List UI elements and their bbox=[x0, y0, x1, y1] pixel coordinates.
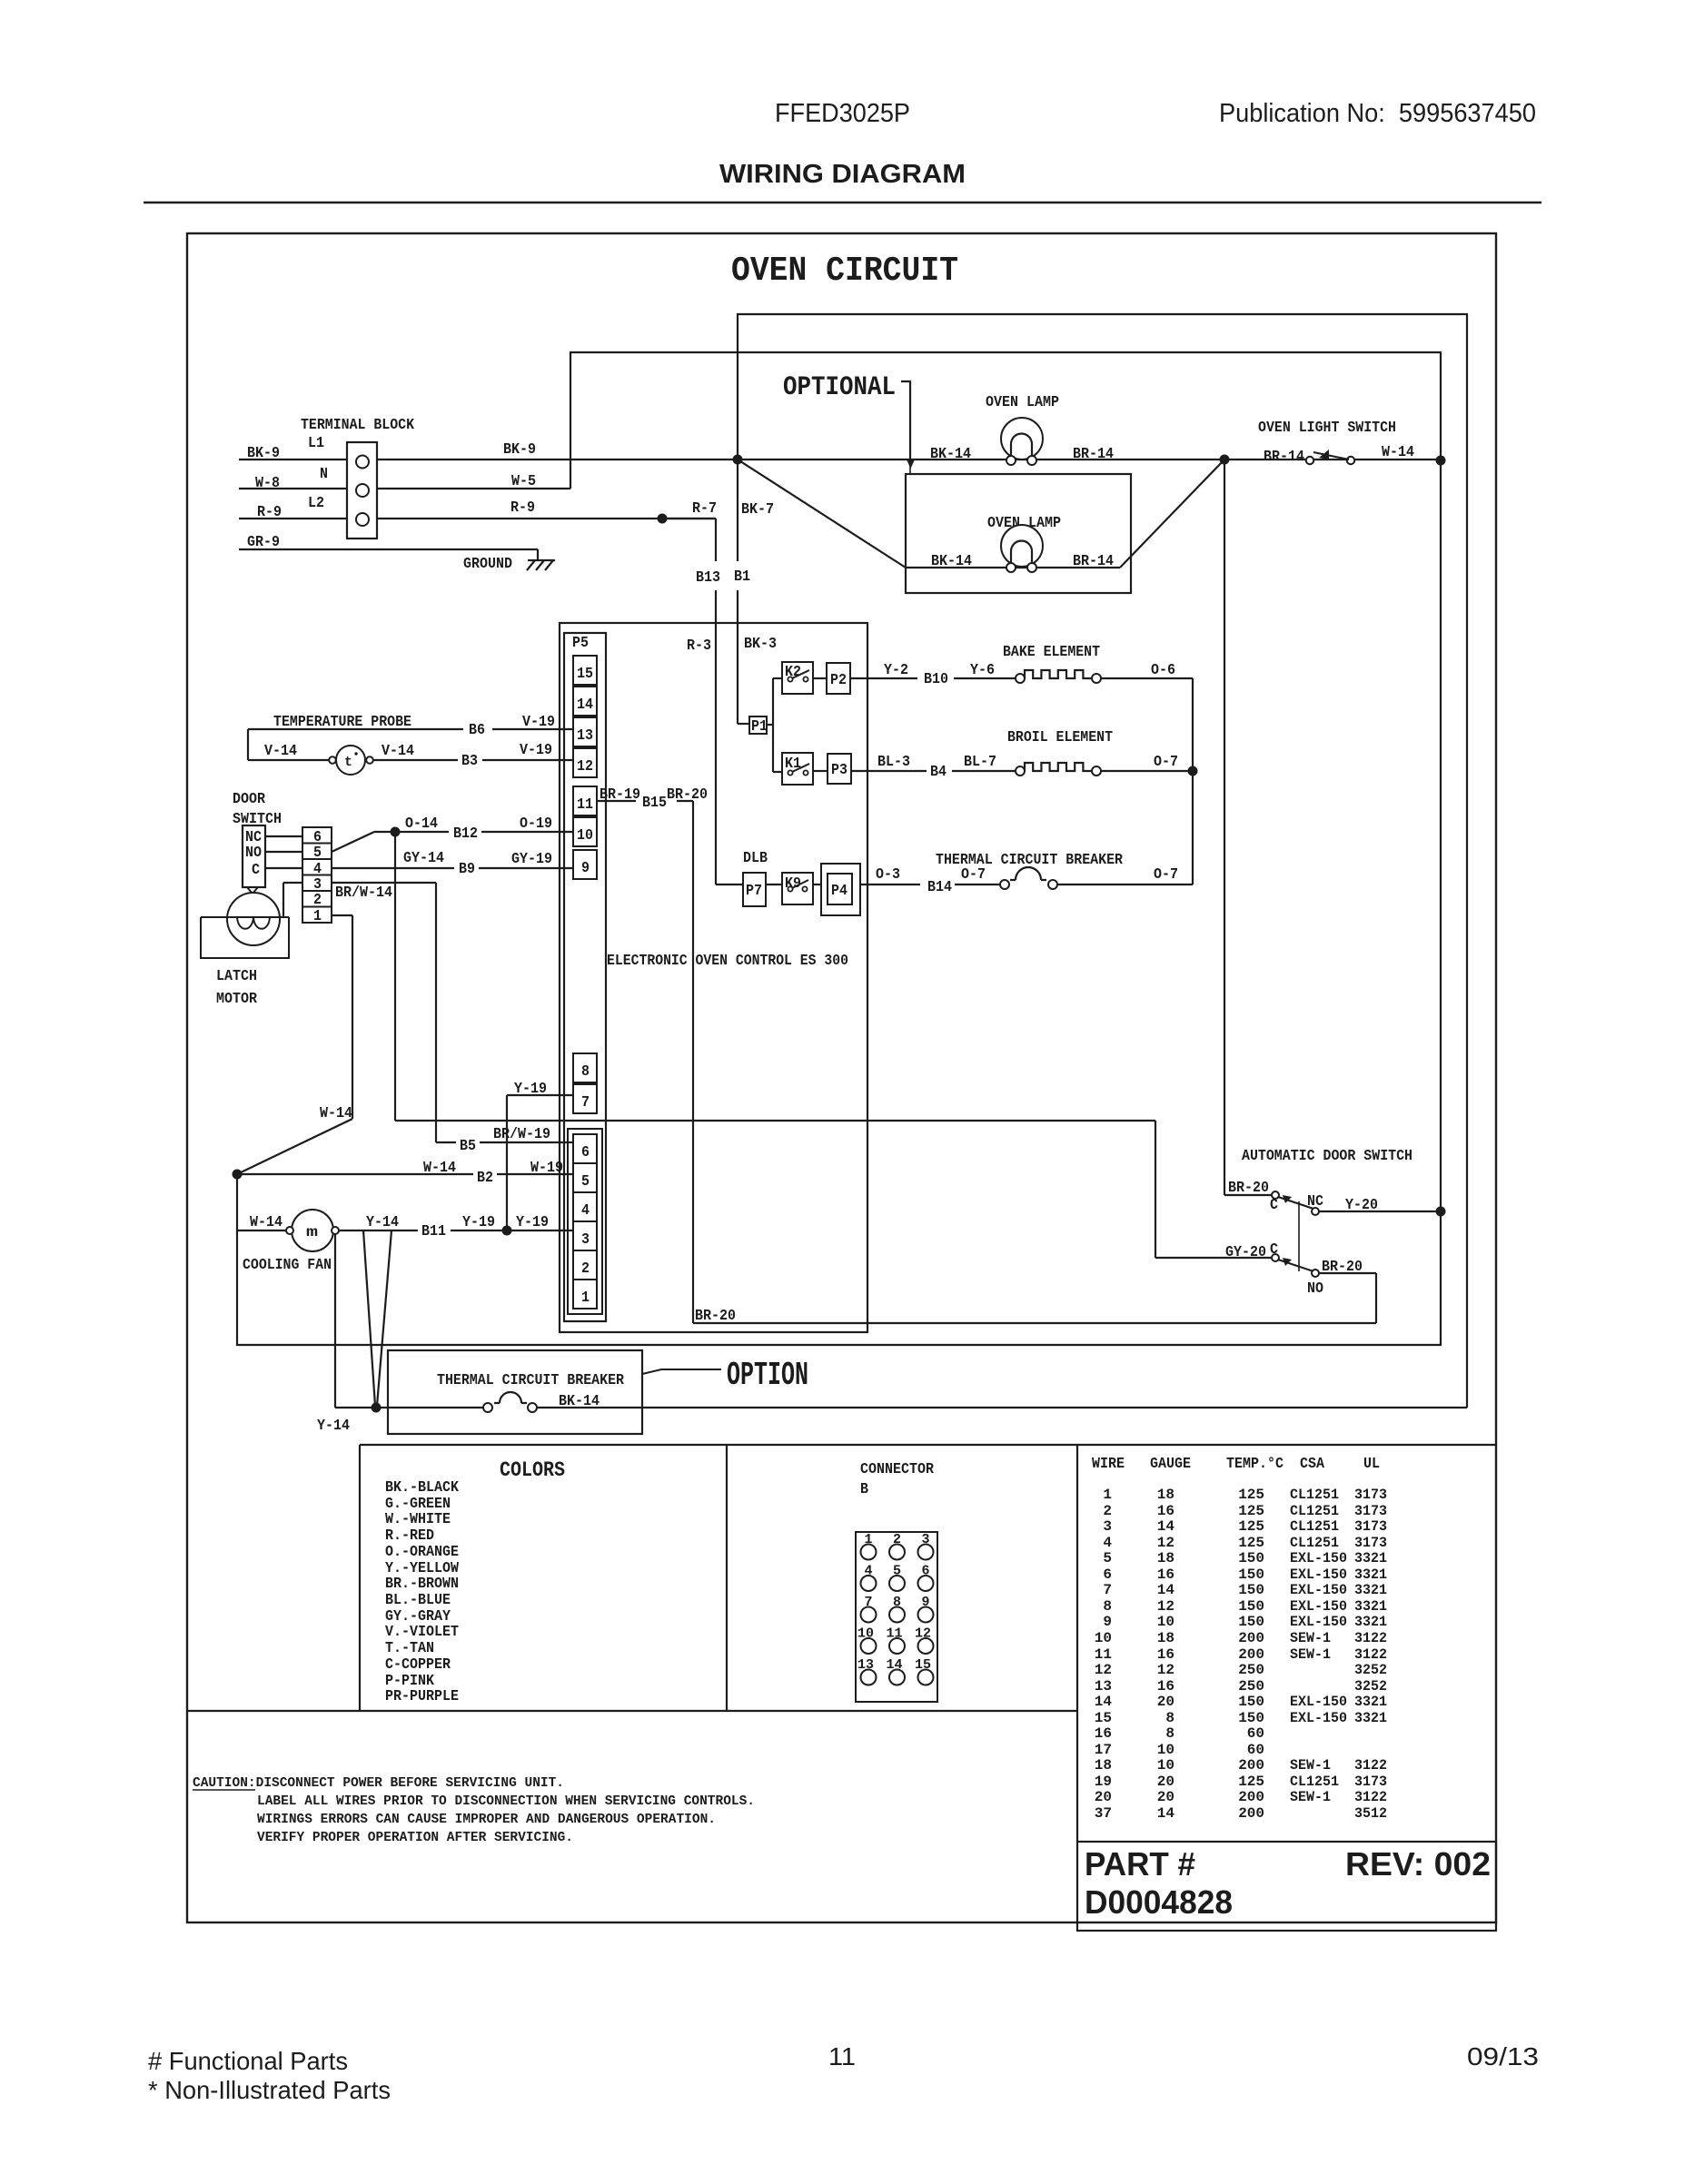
svg-text:O-7: O-7 bbox=[961, 865, 986, 883]
svg-text:200: 200 bbox=[1238, 1805, 1264, 1822]
color code Y.-YELLOW bbox=[385, 1559, 459, 1576]
svg-text:# Functional Parts: # Functional Parts bbox=[148, 2047, 348, 2075]
svg-text:O-14: O-14 bbox=[405, 815, 438, 832]
svg-text:R-9: R-9 bbox=[257, 503, 282, 520]
svg-text:WIRINGS ERRORS CAN CAUSE IMPRO: WIRINGS ERRORS CAN CAUSE IMPROPER AND DA… bbox=[257, 1813, 716, 1827]
wire table row 4 bbox=[1103, 1535, 1387, 1551]
wire NO to BR-20 return bbox=[1319, 1272, 1376, 1274]
wire O-7 from broil element bbox=[1101, 753, 1193, 771]
wire table row 17 bbox=[1095, 1742, 1264, 1758]
svg-text:4: 4 bbox=[581, 1201, 590, 1219]
color code R.-RED bbox=[385, 1527, 434, 1544]
svg-text:R-9: R-9 bbox=[510, 499, 535, 516]
wire element common vertical bbox=[1192, 678, 1194, 884]
svg-text:13: 13 bbox=[577, 726, 593, 744]
svg-text:BK-14: BK-14 bbox=[559, 1392, 600, 1409]
wire relay K2 to P2 bbox=[813, 677, 827, 679]
DLB label bbox=[743, 849, 768, 866]
svg-text:GR-9: GR-9 bbox=[247, 533, 280, 550]
wire table row 19 bbox=[1095, 1774, 1387, 1790]
svg-text:3321: 3321 bbox=[1354, 1582, 1387, 1598]
wire P1 to relay commons bbox=[767, 678, 782, 772]
svg-text:W.-WHITE: W.-WHITE bbox=[385, 1510, 451, 1527]
color code T.-TAN bbox=[385, 1639, 434, 1656]
svg-text:3: 3 bbox=[581, 1230, 590, 1248]
wire W-5 from terminal block bbox=[377, 472, 570, 489]
svg-text:8: 8 bbox=[581, 1062, 590, 1080]
footer functional parts note bbox=[148, 2047, 348, 2075]
svg-text:BR-20: BR-20 bbox=[1228, 1179, 1269, 1196]
svg-text:125: 125 bbox=[1238, 1535, 1264, 1551]
thermal circuit breaker CB1 label bbox=[936, 851, 1123, 868]
plug P4 outer bbox=[821, 864, 860, 915]
svg-text:14: 14 bbox=[1157, 1805, 1175, 1822]
node C junction BR-14 bbox=[1220, 455, 1230, 465]
P5 pin 2 bbox=[573, 1250, 597, 1280]
svg-text:3321: 3321 bbox=[1354, 1614, 1387, 1630]
OPTION label and leader bbox=[642, 1357, 808, 1394]
temperature probe left vertical wire bbox=[247, 729, 249, 760]
svg-text:DLB: DLB bbox=[743, 849, 768, 866]
svg-text:BL-3: BL-3 bbox=[877, 753, 910, 770]
part number D0004828 bbox=[1085, 1883, 1233, 1921]
connector B pins 4-6 bbox=[861, 1564, 934, 1592]
svg-text:BL-7: BL-7 bbox=[964, 753, 996, 770]
wire O-6 from bake element bbox=[1101, 661, 1193, 678]
svg-text:12: 12 bbox=[1157, 1662, 1175, 1678]
svg-text:12: 12 bbox=[1157, 1598, 1175, 1615]
P5 pin 10 bbox=[573, 817, 597, 846]
svg-text:CL1251: CL1251 bbox=[1290, 1774, 1339, 1790]
svg-text:TEMP.°C: TEMP.°C bbox=[1226, 1455, 1284, 1472]
svg-text:UL: UL bbox=[1363, 1455, 1380, 1472]
connector B pins 7-9 bbox=[861, 1595, 934, 1623]
svg-text:BL.-BLUE: BL.-BLUE bbox=[385, 1591, 451, 1608]
wire table row 12 bbox=[1095, 1662, 1387, 1678]
wire table row 16 bbox=[1095, 1725, 1264, 1742]
svg-text:4: 4 bbox=[1103, 1535, 1112, 1551]
wire table row 1 bbox=[1103, 1487, 1387, 1503]
svg-text:18: 18 bbox=[1157, 1550, 1175, 1566]
svg-text:2: 2 bbox=[1103, 1503, 1112, 1519]
wire table row 15 bbox=[1095, 1710, 1387, 1726]
svg-text:Y-14: Y-14 bbox=[317, 1417, 350, 1434]
svg-text:O-6: O-6 bbox=[1151, 661, 1175, 678]
diagram outer border box bbox=[187, 233, 1496, 1922]
plug P2 bbox=[827, 663, 850, 694]
svg-text:B1: B1 bbox=[734, 568, 750, 585]
svg-text:P4: P4 bbox=[831, 882, 847, 899]
node D junction W-14 on loop bbox=[1436, 456, 1446, 466]
svg-text:TEMPERATURE PROBE: TEMPERATURE PROBE bbox=[273, 713, 411, 730]
node B junction R-9/R-7 bbox=[658, 514, 668, 524]
electronic oven control label bbox=[607, 952, 848, 969]
oven light switch symbol bbox=[1264, 443, 1414, 465]
wire door switch NO to pin 5 bbox=[265, 851, 302, 853]
svg-text:3: 3 bbox=[1103, 1518, 1112, 1535]
svg-text:Publication No: 5995637450: Publication No: 5995637450 bbox=[1219, 99, 1536, 128]
svg-text:CSA: CSA bbox=[1300, 1455, 1324, 1472]
wire V-14/B3/V-19 to pin 12 bbox=[373, 741, 573, 769]
svg-text:EXL-150: EXL-150 bbox=[1290, 1710, 1347, 1726]
wire table row 13 bbox=[1095, 1678, 1387, 1695]
wire Y-19 to pin 7 bbox=[507, 1080, 573, 1230]
wire GR-9 ground conductor bbox=[239, 533, 538, 550]
automatic door switch link bbox=[1298, 1201, 1300, 1271]
wire O-7 from breaker bbox=[1057, 865, 1193, 884]
svg-text:5: 5 bbox=[1103, 1550, 1112, 1566]
node F junction W-14 bbox=[233, 1170, 243, 1180]
bake element label bbox=[1003, 643, 1100, 660]
oven light switch S1 label bbox=[1258, 419, 1396, 436]
svg-text:EXL-150: EXL-150 bbox=[1290, 1598, 1347, 1615]
svg-text:Y-2: Y-2 bbox=[884, 661, 908, 678]
OPTIONAL label and pointer bbox=[783, 372, 915, 474]
svg-text:ELECTRONIC OVEN CONTROL ES 300: ELECTRONIC OVEN CONTROL ES 300 bbox=[607, 952, 848, 969]
relay K1 bbox=[782, 753, 813, 785]
svg-text:200: 200 bbox=[1238, 1757, 1264, 1774]
svg-text:SEW-1: SEW-1 bbox=[1290, 1630, 1331, 1646]
svg-text:OPTION: OPTION bbox=[727, 1357, 808, 1394]
svg-text:MOTOR: MOTOR bbox=[216, 990, 257, 1007]
wire from strip 5 diagonal to node E bbox=[332, 832, 395, 852]
svg-text:C-COPPER: C-COPPER bbox=[385, 1655, 451, 1673]
color code GY.-GRAY bbox=[385, 1607, 451, 1625]
svg-text:Y-14: Y-14 bbox=[366, 1213, 399, 1230]
wire strip 3 to latch motor bbox=[283, 883, 302, 917]
wire O-14 run to automatic door switch bbox=[395, 832, 1272, 1258]
option thermal circuit breaker box bbox=[388, 1350, 642, 1434]
P5 pin 7 bbox=[573, 1084, 597, 1113]
wire BR-20 bottom run to NO bbox=[693, 1273, 1376, 1323]
wire R-7/R-3 (B13) vertical bbox=[662, 499, 743, 884]
latch motor label bbox=[216, 967, 257, 1007]
diagonal wire optional lamp to node C bbox=[1120, 460, 1224, 568]
svg-text:60: 60 bbox=[1247, 1725, 1264, 1742]
svg-text:GY-19: GY-19 bbox=[511, 850, 552, 867]
svg-text:BK-14: BK-14 bbox=[930, 445, 971, 462]
svg-text:14: 14 bbox=[577, 696, 593, 713]
footer non-illustrated parts note bbox=[148, 2076, 391, 2104]
svg-text:B4: B4 bbox=[930, 763, 947, 780]
svg-text:3173: 3173 bbox=[1354, 1487, 1387, 1503]
svg-text:REV: 002: REV: 002 bbox=[1345, 1845, 1491, 1883]
svg-text:C: C bbox=[252, 861, 260, 878]
svg-text:6: 6 bbox=[1103, 1566, 1112, 1583]
wire Y-2/B10/Y-6 from P2 bbox=[850, 661, 1016, 687]
color code W.-WHITE bbox=[385, 1510, 451, 1527]
broil element symbol bbox=[1016, 763, 1101, 776]
svg-text:P7: P7 bbox=[746, 882, 762, 899]
svg-text:BR/W-14: BR/W-14 bbox=[335, 884, 392, 901]
cooling fan M2 symbol bbox=[286, 1210, 339, 1251]
caution text block bbox=[193, 1776, 755, 1845]
wire loop W-5/W-19 (inner box 2) bbox=[237, 352, 1441, 1345]
wire relay K9 to P4 bbox=[813, 884, 821, 885]
svg-text:SEW-1: SEW-1 bbox=[1290, 1757, 1331, 1774]
svg-text:CONNECTOR: CONNECTOR bbox=[860, 1460, 934, 1477]
svg-text:3252: 3252 bbox=[1354, 1662, 1387, 1678]
svg-text:15: 15 bbox=[577, 665, 593, 682]
svg-text:TERMINAL BLOCK: TERMINAL BLOCK bbox=[301, 416, 414, 433]
svg-text:3321: 3321 bbox=[1354, 1550, 1387, 1566]
footer date 09/13 bbox=[1467, 2042, 1539, 2070]
svg-text:37: 37 bbox=[1095, 1805, 1112, 1822]
svg-text:16: 16 bbox=[1095, 1725, 1112, 1742]
svg-text:CL1251: CL1251 bbox=[1290, 1518, 1339, 1535]
wire B5 BR/W-19 to pin 6 bbox=[436, 1125, 573, 1154]
part number title bbox=[1085, 1845, 1195, 1883]
svg-text:BK-7: BK-7 bbox=[741, 500, 774, 518]
svg-text:9: 9 bbox=[1103, 1614, 1112, 1630]
svg-text:EXL-150: EXL-150 bbox=[1290, 1694, 1347, 1710]
svg-text:EXL-150: EXL-150 bbox=[1290, 1582, 1347, 1598]
svg-text:3173: 3173 bbox=[1354, 1535, 1387, 1551]
connector B pins 1-3 bbox=[861, 1532, 934, 1560]
svg-text:8: 8 bbox=[1103, 1598, 1112, 1615]
svg-text:3173: 3173 bbox=[1354, 1518, 1387, 1535]
svg-text:m: m bbox=[306, 1224, 319, 1240]
svg-text:18: 18 bbox=[1157, 1487, 1175, 1503]
svg-text:B: B bbox=[860, 1480, 868, 1497]
P5 pin 5 bbox=[573, 1163, 597, 1192]
svg-text:3122: 3122 bbox=[1354, 1646, 1387, 1663]
plug P4 bbox=[828, 874, 852, 904]
svg-text:150: 150 bbox=[1238, 1598, 1264, 1615]
connector B pins 10-12 bbox=[857, 1626, 934, 1655]
wire table row 3 bbox=[1103, 1518, 1387, 1535]
terminal N label bbox=[320, 465, 328, 482]
connector B title bbox=[860, 1460, 934, 1497]
svg-text:PART #: PART # bbox=[1085, 1845, 1195, 1883]
svg-text:B6: B6 bbox=[469, 721, 485, 738]
svg-text:15: 15 bbox=[1095, 1710, 1112, 1726]
thermal circuit breaker CB1 symbol bbox=[1000, 867, 1057, 889]
terminal L2 label bbox=[308, 494, 324, 511]
wire relay K1 to P3 bbox=[813, 770, 828, 772]
svg-text:WIRING DIAGRAM: WIRING DIAGRAM bbox=[719, 160, 966, 189]
svg-text:COLORS: COLORS bbox=[500, 1458, 565, 1482]
wire cooling fan down to node H bbox=[335, 1234, 376, 1408]
svg-text:09/13: 09/13 bbox=[1467, 2042, 1539, 2070]
svg-text:V.-VIOLET: V.-VIOLET bbox=[385, 1623, 459, 1640]
svg-text:OVEN LAMP: OVEN LAMP bbox=[986, 393, 1059, 410]
svg-text:FFED3025P: FFED3025P bbox=[775, 99, 910, 128]
svg-text:200: 200 bbox=[1238, 1789, 1264, 1805]
svg-text:20: 20 bbox=[1157, 1774, 1175, 1790]
svg-text:WIRE: WIRE bbox=[1092, 1455, 1125, 1472]
wire table row 11 bbox=[1095, 1646, 1387, 1663]
P5 pin 4 bbox=[573, 1192, 597, 1221]
svg-text:14: 14 bbox=[1157, 1518, 1175, 1535]
svg-text:T.-TAN: T.-TAN bbox=[385, 1639, 434, 1656]
wire BR/W-14 from strip 3 bbox=[332, 883, 436, 1142]
P5 pin 13 bbox=[573, 717, 597, 746]
color code BR.-BROWN bbox=[385, 1575, 459, 1592]
svg-text:19: 19 bbox=[1095, 1774, 1112, 1790]
svg-text:10: 10 bbox=[1157, 1757, 1175, 1774]
svg-text:V-14: V-14 bbox=[382, 742, 414, 759]
svg-text:B13: B13 bbox=[696, 568, 720, 586]
svg-text:BR-19: BR-19 bbox=[600, 786, 640, 803]
latch motor M1 symbol bbox=[201, 893, 289, 958]
svg-text:Y-19: Y-19 bbox=[516, 1213, 549, 1230]
svg-text:NO: NO bbox=[245, 844, 262, 861]
color code G.-GREEN bbox=[385, 1495, 451, 1512]
wire from strip 1 down bbox=[332, 915, 352, 1119]
wire table row 10 bbox=[1095, 1630, 1387, 1646]
svg-text:18: 18 bbox=[1157, 1630, 1175, 1646]
wire table row 2 bbox=[1103, 1503, 1387, 1519]
svg-text:EXL-150: EXL-150 bbox=[1290, 1614, 1347, 1630]
wire Y-14 into option breaker bbox=[376, 1407, 483, 1408]
svg-text:BR-20: BR-20 bbox=[695, 1307, 736, 1324]
wire R-9 supply L2 left bbox=[239, 503, 347, 520]
svg-text:L2: L2 bbox=[308, 494, 324, 511]
wire loop BK-9/BK-14 top (inner box 1) bbox=[738, 314, 1467, 1408]
svg-text:20: 20 bbox=[1157, 1789, 1175, 1805]
legend section frame bbox=[187, 1445, 1496, 1842]
svg-text:O-7: O-7 bbox=[1154, 753, 1178, 770]
oven lamp 1 symbol bbox=[1001, 418, 1043, 465]
svg-text:250: 250 bbox=[1238, 1662, 1264, 1678]
svg-text:3321: 3321 bbox=[1354, 1694, 1387, 1710]
svg-text:150: 150 bbox=[1238, 1550, 1264, 1566]
wire R-9 from terminal block to node B bbox=[377, 499, 716, 519]
wire table headers bbox=[1092, 1455, 1380, 1472]
svg-text:W-5: W-5 bbox=[511, 472, 536, 489]
svg-text:EXL-150: EXL-150 bbox=[1290, 1566, 1347, 1583]
svg-text:B12: B12 bbox=[453, 825, 478, 842]
svg-text:9: 9 bbox=[581, 859, 590, 876]
diagonal wire node A to optional lamp bbox=[738, 460, 906, 568]
svg-text:B9: B9 bbox=[459, 860, 475, 877]
svg-text:150: 150 bbox=[1238, 1710, 1264, 1726]
wire table row 6 bbox=[1103, 1566, 1387, 1583]
svg-text:3321: 3321 bbox=[1354, 1598, 1387, 1615]
electronic oven control box bbox=[560, 623, 867, 1332]
svg-text:THERMAL CIRCUIT BREAKER: THERMAL CIRCUIT BREAKER bbox=[437, 1371, 624, 1388]
svg-text:B15: B15 bbox=[642, 794, 667, 811]
color code BL.-BLUE bbox=[385, 1591, 451, 1608]
svg-text:8: 8 bbox=[1165, 1725, 1175, 1742]
svg-text:200: 200 bbox=[1238, 1630, 1264, 1646]
svg-text:16: 16 bbox=[1157, 1678, 1175, 1695]
svg-text:1: 1 bbox=[1103, 1487, 1112, 1503]
P5 pin 14 bbox=[573, 687, 597, 716]
automatic door switch lower pole bbox=[1225, 1240, 1363, 1297]
node I junction O-7 bbox=[1188, 766, 1198, 776]
svg-text:150: 150 bbox=[1238, 1566, 1264, 1583]
svg-text:16: 16 bbox=[1157, 1646, 1175, 1663]
svg-text:11: 11 bbox=[828, 2042, 856, 2070]
svg-text:CL1251: CL1251 bbox=[1290, 1487, 1339, 1503]
node E junction O-14 bbox=[391, 827, 401, 837]
wire GY-14/B9/GY-19 to pin 9 bbox=[332, 849, 573, 877]
svg-text:B10: B10 bbox=[924, 670, 948, 687]
oven lamp 2 label bbox=[987, 514, 1061, 531]
wire BR-20 vertical B15 bbox=[693, 801, 736, 1324]
svg-text:250: 250 bbox=[1238, 1678, 1264, 1695]
svg-text:3321: 3321 bbox=[1354, 1566, 1387, 1583]
wire BK-9 supply L1 left bbox=[239, 444, 347, 461]
P5 pin 11 bbox=[573, 786, 597, 815]
svg-text:R.-RED: R.-RED bbox=[385, 1527, 434, 1544]
svg-text:Y-19: Y-19 bbox=[514, 1080, 547, 1097]
svg-text:1: 1 bbox=[581, 1289, 590, 1306]
wire table row 14 bbox=[1095, 1694, 1387, 1710]
svg-text:BK-9: BK-9 bbox=[247, 444, 280, 461]
svg-text:GAUGE: GAUGE bbox=[1150, 1455, 1191, 1472]
wire V legs to node H bbox=[363, 1230, 392, 1406]
svg-text:3173: 3173 bbox=[1354, 1503, 1387, 1519]
wire BR-19/B15 from pin 11 bbox=[597, 786, 708, 811]
svg-text:V-19: V-19 bbox=[522, 713, 555, 730]
door switch connector strip bbox=[302, 827, 332, 924]
P5 pin 1 bbox=[573, 1280, 597, 1309]
svg-text:V-19: V-19 bbox=[520, 741, 552, 758]
svg-text:BROIL ELEMENT: BROIL ELEMENT bbox=[1007, 728, 1113, 746]
svg-text:10: 10 bbox=[1157, 1742, 1175, 1758]
wire W-14 diagonal to node F bbox=[237, 1104, 352, 1174]
svg-text:18: 18 bbox=[1095, 1757, 1112, 1774]
wire table row 5 bbox=[1103, 1550, 1387, 1566]
svg-text:DOOR: DOOR bbox=[233, 790, 265, 807]
svg-text:GY-20: GY-20 bbox=[1225, 1243, 1266, 1260]
svg-text:O.-ORANGE: O.-ORANGE bbox=[385, 1543, 459, 1560]
svg-text:Y-19: Y-19 bbox=[462, 1213, 495, 1230]
svg-text:C: C bbox=[1270, 1196, 1278, 1213]
svg-text:GROUND: GROUND bbox=[463, 555, 512, 572]
svg-text:LATCH: LATCH bbox=[216, 967, 257, 984]
node A junction BK-9 bbox=[733, 455, 743, 465]
wire BK-7/BK-3 (B1) vertical bbox=[734, 460, 777, 724]
wire door switch C to pin 4 bbox=[265, 867, 302, 869]
svg-text:D0004828: D0004828 bbox=[1085, 1883, 1233, 1921]
plug P1 bbox=[749, 716, 768, 735]
svg-text:11: 11 bbox=[1095, 1646, 1112, 1663]
svg-text:B5: B5 bbox=[460, 1137, 476, 1154]
svg-text:20: 20 bbox=[1157, 1694, 1175, 1710]
oven lamp 1 label bbox=[986, 393, 1059, 410]
svg-text:BAKE ELEMENT: BAKE ELEMENT bbox=[1003, 643, 1100, 660]
P5 pin 8 bbox=[573, 1053, 597, 1082]
svg-text:GY-14: GY-14 bbox=[403, 849, 444, 866]
broil element label bbox=[1007, 728, 1113, 746]
wire W-14 to cooling fan bbox=[237, 1213, 291, 1230]
svg-text:BR-20: BR-20 bbox=[667, 786, 708, 803]
svg-text:3122: 3122 bbox=[1354, 1789, 1387, 1805]
option thermal circuit breaker CB2 symbol bbox=[483, 1392, 537, 1412]
option thermal circuit breaker label bbox=[437, 1371, 624, 1388]
svg-text:O-3: O-3 bbox=[876, 865, 900, 883]
svg-text:150: 150 bbox=[1238, 1614, 1264, 1630]
node G junction Y-19 bbox=[502, 1226, 512, 1236]
svg-text:COOLING FAN: COOLING FAN bbox=[243, 1256, 332, 1273]
plug P3 bbox=[828, 754, 851, 784]
svg-text:OVEN LIGHT SWITCH: OVEN LIGHT SWITCH bbox=[1258, 419, 1396, 436]
temperature probe label bbox=[273, 713, 411, 730]
svg-text:N: N bbox=[320, 465, 328, 482]
wire table row 18 bbox=[1095, 1757, 1387, 1774]
svg-text:B11: B11 bbox=[421, 1222, 446, 1240]
color code O.-ORANGE bbox=[385, 1543, 459, 1560]
svg-text:P2: P2 bbox=[830, 671, 847, 688]
svg-text:3252: 3252 bbox=[1354, 1678, 1387, 1695]
wire O-3/B14/O-7 from P4 bbox=[860, 865, 1000, 895]
plug P7 bbox=[743, 873, 766, 906]
svg-text:EXL-150: EXL-150 bbox=[1290, 1550, 1347, 1566]
